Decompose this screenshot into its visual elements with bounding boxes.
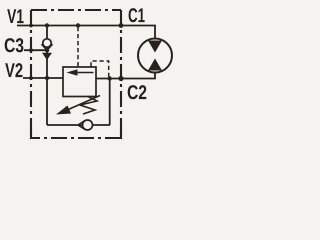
port V1 on enclosure [29,24,33,28]
enclosure corner reinforcements [31,129,40,138]
port C2 on enclosure [118,76,123,81]
enclosure bottom edge [31,137,121,139]
relief valve RV spring [80,97,97,115]
junction node V1/check branch [45,23,49,27]
relief valve RV body [63,67,96,97]
relief valve RV adjustment arrow [66,96,100,111]
junction node V1/pilot [76,23,80,27]
wire riser from bottom check line to C2 line [109,79,111,126]
check valve CV2 seat [78,121,85,130]
motor M1 top triangle [148,41,162,53]
enclosure right edge [120,10,122,138]
svg-text:V2: V2 [5,60,23,82]
svg-text:C3: C3 [4,35,24,57]
wire V1 port line to C1 and motor top [17,26,155,40]
relief valve RV internal flow arrow [77,72,94,74]
wire V2 port line [23,77,63,79]
port C1 on enclosure [119,23,124,28]
junction node riser/C2 line [108,76,112,80]
junction node V2/check branch [45,76,49,80]
port C3 on enclosure [29,48,33,52]
pilot line from relief spring side to outlet (dashed) [91,61,109,77]
check valve CV1 seat [42,44,53,50]
svg-text:C1: C1 [128,5,145,27]
enclosure top edge [31,9,121,11]
wire C2 internal line to relief valve outlet [96,78,121,80]
junction node C3/check branch [45,48,49,52]
flow arrow below CV1 [42,53,52,60]
svg-text:V1: V1 [7,6,24,28]
enclosure left edge [30,10,32,138]
port V2 on enclosure [29,76,33,80]
motor M1 circle [138,39,172,73]
motor M1 bottom triangle [148,59,162,71]
wire motor bottom return to C2 port [121,72,155,79]
svg-text:C2: C2 [127,82,147,104]
wire check branch vertical [46,26,48,126]
check valve CV1 ball [43,39,51,47]
wire C3 port line [24,49,47,51]
pilot line from V1 to relief valve top (dashed) [77,27,79,67]
wire bottom check valve line [47,124,110,126]
check valve CV2 ball [83,120,93,130]
